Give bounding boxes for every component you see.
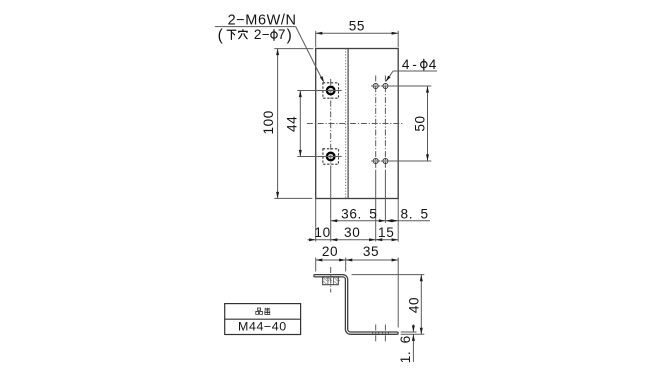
svg-text:M44−40: M44−40 [238,319,287,333]
bend line dotted [345,49,347,199]
svg-text:−: − [262,27,271,42]
phi4 hole at (385,161) [383,159,388,164]
svg-text:50: 50 [412,115,427,131]
phi4 hole at (376,86) [373,84,378,89]
svg-text:4: 4 [429,57,437,72]
weld nut lower (hidden, dashed) [323,149,339,164]
dim 44 [299,91,301,157]
dim 1.6 extension line [401,331,417,333]
title block box [225,304,301,335]
svg-text:30: 30 [344,225,360,240]
phi4 hole at (385,86) [383,84,388,89]
svg-text:8. 5: 8. 5 [401,206,429,221]
svg-text:36. 5: 36. 5 [341,206,377,221]
kanji shita [227,30,237,40]
phi4 hole at (376,161) [373,159,378,164]
svg-text:): ) [287,27,293,44]
dim 55 extension lines [315,31,317,48]
svg-text:40: 40 [407,297,422,313]
svg-text:44: 44 [285,116,300,132]
svg-text:100: 100 [261,110,276,134]
svg-text:4: 4 [402,57,410,72]
weld nut cross-section under flange [323,277,339,285]
weld nut upper (hidden, dashed) [323,83,339,98]
dim 40 extension lines [352,274,425,276]
tapped hole M6 upper [327,87,335,95]
svg-text:10: 10 [314,225,330,240]
kanji ana [238,29,248,39]
svg-text:-: - [412,57,417,72]
dim 20 35 extension lines [315,258,317,272]
phi4 hole centerlines vertical [375,76,377,171]
extension lines below plate [315,199,317,242]
dim 40 [420,275,422,335]
dim 10 30 15 line [308,239,399,241]
svg-text:2: 2 [254,27,262,42]
plate outline (plan view 55x100) [316,49,399,199]
dim 50 extension lines [390,85,432,87]
dim 100 extension lines [274,48,313,50]
dim 20 35 line [316,259,399,261]
bend line solid [347,49,349,199]
horizontal centerline [307,123,403,125]
M6 holes vertical centerline [330,79,332,170]
svg-text:1. 6: 1. 6 [398,335,413,363]
svg-text:7: 7 [278,27,286,42]
dim 1.6 arrows [412,325,414,333]
svg-text:15: 15 [378,225,394,240]
svg-text:35: 35 [363,244,379,259]
tapped hole M6 lower [327,153,335,161]
bottom flange hole centerlines [375,325,377,344]
side view Z-bracket profile [314,275,398,335]
dim 50 [427,86,429,161]
svg-text:55: 55 [349,18,365,33]
kanji hinban (part number) [256,308,263,314]
dim 55 [316,32,399,34]
weld nut hatching [323,277,340,284]
svg-text:(: ( [218,27,224,44]
weld nut centerline [330,267,332,293]
svg-text:20: 20 [322,244,338,259]
dim 36.5 and 8.5 line [331,220,430,222]
dim 100 [277,49,279,199]
dim 44 extension lines [297,90,341,92]
hole edges in section [372,332,374,335]
